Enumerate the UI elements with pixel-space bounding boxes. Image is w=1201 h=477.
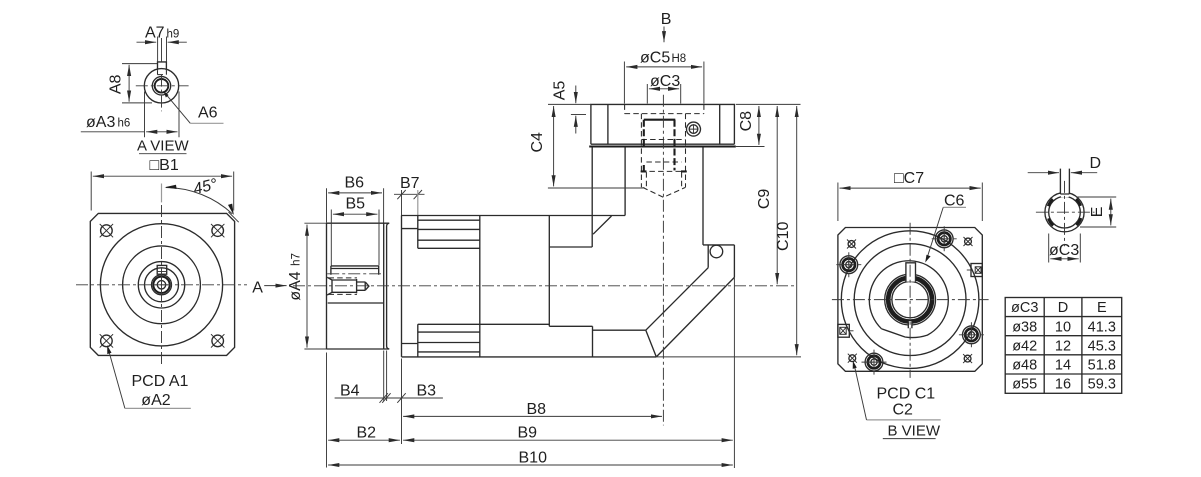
flange square with chamfered corners bbox=[90, 213, 234, 355]
flange bolt hole bbox=[687, 122, 701, 136]
C4 lower reference line bbox=[548, 187, 645, 189]
svg-text:A8: A8 bbox=[108, 75, 125, 95]
dim A7 arrows bbox=[137, 41, 157, 43]
svg-text:B4: B4 bbox=[340, 382, 360, 399]
svg-text:C6: C6 bbox=[944, 192, 965, 209]
svg-text:A6: A6 bbox=[198, 104, 218, 121]
45 deg reference line bbox=[229, 212, 239, 222]
dim B1 extension lines bbox=[91, 172, 234, 211]
drill cone hidden bbox=[643, 187, 686, 197]
svg-text:ø42: ø42 bbox=[1012, 338, 1037, 354]
socket screw bottom-right bbox=[959, 322, 984, 347]
svg-text:B5: B5 bbox=[346, 196, 366, 213]
bolt circle boss bbox=[123, 246, 201, 324]
pilot recess dashed bbox=[625, 104, 704, 113]
output shaft bottom edge bbox=[327, 348, 390, 350]
internal step under tower bbox=[549, 147, 592, 248]
svg-text:øA2: øA2 bbox=[141, 392, 170, 409]
øA4 extension lines bbox=[304, 223, 327, 349]
svg-text:14: 14 bbox=[1055, 358, 1071, 374]
flange mounting face (bold) bbox=[589, 145, 736, 147]
body right edge extension bbox=[733, 277, 735, 468]
svg-text:45.3: 45.3 bbox=[1088, 338, 1116, 354]
hub bold ring bbox=[155, 79, 169, 93]
svg-text:D: D bbox=[1090, 155, 1102, 172]
svg-text:ø38: ø38 bbox=[1012, 319, 1037, 335]
detail centerlines bbox=[1036, 211, 1095, 213]
svg-text:□C7: □C7 bbox=[894, 170, 924, 187]
bore inner circle bbox=[1049, 196, 1081, 228]
pilot circle large bbox=[841, 231, 979, 369]
svg-text:PCD A1: PCD A1 bbox=[132, 373, 189, 390]
bolt hole top-right bbox=[211, 224, 224, 237]
keyway slot bbox=[1061, 189, 1069, 198]
socket screw bottom-left bbox=[862, 350, 887, 375]
body step lines at left bbox=[402, 229, 418, 344]
tower step to body right bbox=[703, 244, 734, 246]
vertical centerline upper (gray) bbox=[161, 184, 163, 203]
right clamp port bbox=[967, 264, 983, 277]
shaft end face bbox=[326, 223, 328, 349]
bore outer circle bbox=[1045, 193, 1084, 232]
corner tap hole top-right bbox=[964, 237, 973, 246]
svg-text:59.3: 59.3 bbox=[1088, 377, 1116, 393]
dim øA4 line bbox=[306, 225, 308, 348]
corner tap hole top-left bbox=[847, 240, 856, 249]
main horizontal centerline bbox=[293, 285, 795, 287]
svg-text:h7: h7 bbox=[291, 253, 303, 266]
45 deg chamfer inner edge bbox=[656, 277, 734, 357]
bearing circle bbox=[138, 262, 184, 308]
tower right edge bbox=[702, 147, 704, 245]
center hole with cross bbox=[157, 281, 165, 289]
svg-text:ø48: ø48 bbox=[1012, 358, 1037, 374]
output shaft top edge bbox=[327, 222, 390, 224]
bolt hole bottom-left bbox=[100, 334, 113, 347]
svg-text:B6: B6 bbox=[345, 174, 365, 191]
body bottom edge bbox=[402, 356, 657, 358]
svg-text:12: 12 bbox=[1055, 338, 1071, 354]
vertical centerline bbox=[161, 205, 163, 365]
bolt hole bottom-right bbox=[211, 334, 224, 347]
keyway on shaft top bbox=[158, 62, 167, 70]
boss circle bbox=[854, 244, 966, 356]
svg-text:ø55: ø55 bbox=[1012, 377, 1037, 393]
horizontal centerline bbox=[136, 85, 189, 87]
pilot section bbox=[357, 282, 366, 290]
svg-text:C9: C9 bbox=[756, 189, 773, 210]
table grid bbox=[1005, 298, 1121, 394]
internal housing line bbox=[548, 216, 550, 327]
svg-text:B VIEW: B VIEW bbox=[888, 423, 941, 440]
hub thin ring bbox=[152, 77, 170, 95]
øA3 leader line bbox=[81, 131, 145, 133]
hub bold ring bbox=[153, 277, 169, 293]
45 degree arc bbox=[166, 188, 232, 214]
bore circle bbox=[145, 268, 179, 302]
thread dashed lines bbox=[329, 278, 358, 295]
bore outer ring bbox=[885, 274, 936, 325]
pilot hole hidden walls bbox=[646, 172, 681, 188]
pilot circle large bbox=[100, 224, 222, 346]
flange inner verticals bbox=[608, 104, 720, 144]
socket screw top-left bbox=[836, 252, 861, 277]
thread bottom line bbox=[641, 170, 687, 172]
svg-text:H8: H8 bbox=[672, 53, 687, 65]
ring shade arcs bbox=[1076, 199, 1081, 206]
svg-text:A VIEW: A VIEW bbox=[137, 137, 190, 154]
svg-text:øA3: øA3 bbox=[86, 114, 115, 131]
svg-text:E: E bbox=[1097, 300, 1107, 316]
center tapped hole: entry chamfer bbox=[327, 277, 332, 295]
svg-text:øC3: øC3 bbox=[650, 73, 680, 90]
dim A7 extension lines bbox=[158, 37, 167, 62]
bolt hole top-left bbox=[100, 224, 113, 237]
dim B1 line bbox=[93, 175, 232, 177]
svg-text:C2: C2 bbox=[893, 402, 914, 419]
svg-text:h9: h9 bbox=[167, 29, 180, 41]
bore keyway square bbox=[157, 265, 167, 274]
hub circle with clamp flat bbox=[869, 261, 948, 338]
internal section line bbox=[479, 216, 481, 357]
bore clamp ring (bold) bbox=[888, 278, 932, 322]
svg-text:øC3: øC3 bbox=[1011, 300, 1038, 316]
svg-text:A7: A7 bbox=[145, 25, 165, 42]
clamp collar lower block bbox=[418, 324, 480, 357]
svg-text:B7: B7 bbox=[400, 175, 420, 192]
vertical centerline bbox=[909, 223, 911, 378]
bore keyway slot C6 bbox=[906, 263, 916, 282]
body top edge bbox=[402, 215, 626, 217]
shaft keyway groove bbox=[331, 266, 379, 275]
flange square with chamfered corners bbox=[838, 228, 982, 372]
boss edge right bbox=[707, 245, 709, 268]
A2 leader with arrow bbox=[109, 350, 125, 409]
svg-text:B9: B9 bbox=[518, 425, 538, 442]
corner tap hole bottom-right bbox=[963, 354, 972, 363]
svg-text:D: D bbox=[1058, 300, 1068, 316]
body right edge bbox=[733, 245, 735, 278]
thread section bold bbox=[644, 119, 676, 121]
svg-text:B2: B2 bbox=[357, 425, 377, 442]
tapped hole body bbox=[332, 279, 357, 293]
svg-text:A: A bbox=[252, 279, 263, 296]
left clamp port bbox=[838, 324, 854, 337]
shaft outer circle bbox=[144, 69, 178, 103]
bore hidden walls bbox=[641, 114, 685, 188]
svg-text:øC5: øC5 bbox=[640, 49, 670, 66]
svg-text:C10: C10 bbox=[775, 222, 792, 251]
svg-text:□B1: □B1 bbox=[150, 157, 179, 174]
shaft rear face bbox=[383, 223, 385, 349]
horizontal centerline bbox=[76, 284, 247, 286]
shaft bore bottom line bbox=[328, 302, 383, 304]
center drill cone bbox=[365, 282, 369, 290]
svg-text:51.8: 51.8 bbox=[1088, 358, 1116, 374]
tower left edge bbox=[624, 147, 626, 216]
svg-text:A5: A5 bbox=[552, 81, 569, 101]
clamp slit bottom bbox=[908, 321, 912, 328]
flange bottom line bbox=[591, 143, 735, 145]
bore hidden steps bbox=[641, 140, 685, 163]
svg-text:C8: C8 bbox=[738, 111, 755, 132]
top mounting flange outline bbox=[591, 104, 735, 144]
horizontal centerline bbox=[832, 299, 989, 301]
svg-text:41.3: 41.3 bbox=[1088, 319, 1116, 335]
bore inner circle bbox=[892, 281, 928, 317]
svg-text:B10: B10 bbox=[519, 449, 548, 466]
svg-text:B: B bbox=[661, 11, 672, 28]
svg-text:B8: B8 bbox=[527, 401, 547, 418]
B axis centerline vertical bbox=[662, 95, 664, 426]
svg-text:10: 10 bbox=[1055, 319, 1071, 335]
pin hole circle bbox=[710, 245, 723, 258]
svg-text:16: 16 bbox=[1055, 377, 1071, 393]
vertical centerline bbox=[161, 38, 163, 62]
svg-text:PCD C1: PCD C1 bbox=[877, 385, 936, 402]
internal cavity bottom bbox=[418, 324, 646, 357]
socket screw top-right bbox=[932, 226, 957, 251]
45 deg chamfer outer edge bbox=[646, 268, 708, 331]
svg-text:h6: h6 bbox=[118, 118, 131, 130]
svg-text:C4: C4 bbox=[529, 132, 546, 153]
svg-text:B3: B3 bbox=[417, 382, 437, 399]
spacer washer face bbox=[387, 223, 390, 349]
clamp collar upper block bbox=[418, 216, 480, 249]
dim A8 bbox=[128, 65, 130, 102]
dim øA3 bbox=[146, 131, 177, 133]
A6 leader with arrow bbox=[164, 92, 190, 123]
keyway hidden bottom (dash-dot) bbox=[327, 273, 381, 275]
hub thin ring bbox=[152, 275, 172, 295]
C2 leader with arrow bbox=[867, 419, 941, 421]
gearbox body left face bbox=[401, 216, 403, 357]
corner tap hole bottom-left bbox=[848, 354, 857, 363]
left extension line bbox=[326, 353, 328, 468]
45 deg chamfer closing edge bbox=[646, 330, 657, 357]
internal chamfer diagonal bbox=[593, 216, 611, 234]
svg-text:E: E bbox=[1089, 207, 1106, 218]
